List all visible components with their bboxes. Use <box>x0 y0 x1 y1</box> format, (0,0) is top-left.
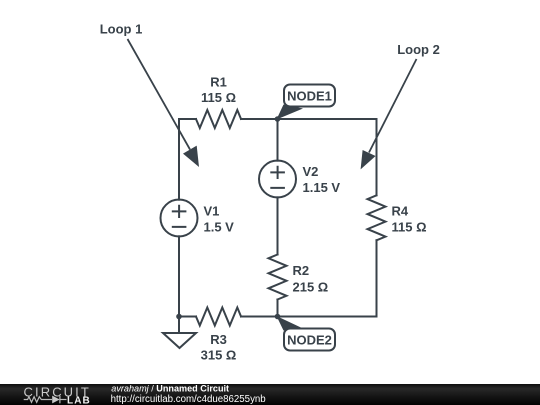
label R2 value <box>293 263 329 295</box>
logo CircuitLab <box>24 384 91 405</box>
label V1 value <box>204 204 235 235</box>
svg-text:R3: R3 <box>210 332 227 347</box>
wire V2 to R2 <box>277 197 279 254</box>
svg-text:1.5 V: 1.5 V <box>204 220 235 235</box>
svg-text:NODE2: NODE2 <box>287 333 332 348</box>
svg-text:Loop 2: Loop 2 <box>397 42 440 57</box>
svg-text:R4: R4 <box>392 204 409 219</box>
wire bottom: ground node to R3 <box>179 316 196 318</box>
wire R3 to NODE2 <box>241 316 278 318</box>
NODE1 label box <box>284 85 335 107</box>
wire right vertical lower segment <box>376 240 378 316</box>
resistor R2 <box>269 255 287 300</box>
svg-text:V1: V1 <box>204 204 220 219</box>
footer text <box>111 383 266 405</box>
resistor R3 <box>196 308 241 326</box>
wire right vertical upper segment <box>376 119 378 195</box>
arrowhead Loop 1 <box>183 146 199 167</box>
svg-text:Loop 1: Loop 1 <box>100 22 143 37</box>
NODE2 label box <box>284 329 335 351</box>
svg-text:R2: R2 <box>293 263 310 278</box>
svg-text:215 Ω: 215 Ω <box>293 280 329 295</box>
svg-text:avrahamj / Unnamed Circuit: avrahamj / Unnamed Circuit <box>111 383 229 393</box>
resistor R1 <box>196 110 241 128</box>
wire arrow line Loop 2 <box>369 59 417 153</box>
wire top left: R1 lead from left corner <box>179 118 196 120</box>
NODE2 callout tail <box>277 316 304 331</box>
svg-text:115 Ω: 115 Ω <box>392 220 427 235</box>
node B junction dot NODE2 <box>275 314 281 320</box>
voltage source V2 <box>259 161 296 198</box>
wire left vertical upper segment <box>178 119 180 200</box>
NODE1 callout tail <box>277 105 304 120</box>
ground <box>178 317 180 334</box>
arrowhead Loop 2 <box>361 150 376 169</box>
svg-text:LAB: LAB <box>67 395 91 405</box>
wire arrow line Loop 1 <box>128 39 191 150</box>
label R3 value <box>201 332 237 363</box>
node A junction dot NODE1 <box>275 116 281 122</box>
voltage source V1 <box>161 200 198 237</box>
wire NODE1 to top-right corner <box>278 118 377 120</box>
svg-text:315 Ω: 315 Ω <box>201 348 237 363</box>
svg-text:http://circuitlab.com/c4due862: http://circuitlab.com/c4due86255ynb <box>111 394 266 405</box>
label R4 value <box>392 204 427 235</box>
svg-text:1.15 V: 1.15 V <box>303 180 341 195</box>
wire R2 to NODE2 <box>277 300 279 317</box>
resistor R4 <box>368 195 386 240</box>
wire NODE2 to bottom-right corner <box>278 316 377 318</box>
svg-text:115 Ω: 115 Ω <box>201 90 236 105</box>
svg-text:R1: R1 <box>210 75 227 90</box>
wire left vertical lower segment <box>178 236 180 316</box>
label V2 value <box>303 164 341 195</box>
wire R1 to NODE1 <box>241 118 278 120</box>
svg-text:V2: V2 <box>303 164 319 179</box>
node C junction dot at ground <box>176 314 182 320</box>
wire NODE1 down to V2 <box>277 119 279 161</box>
label R1 value <box>201 75 236 106</box>
svg-text:NODE1: NODE1 <box>287 89 332 104</box>
